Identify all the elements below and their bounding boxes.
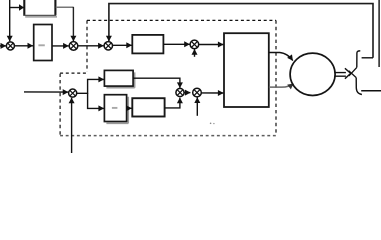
wire W7 upper output curving into ellipse (269, 53, 293, 61)
top feedback line from right side down into S3 (109, 4, 373, 58)
lower branch vertical with elbow tail (356, 78, 362, 95)
wire W2 to S2 (52, 45, 69, 47)
dashed box bottom edge (gray dotted) (60, 135, 276, 137)
summing junction S3 (104, 42, 112, 50)
wire S1 to W2 (15, 45, 34, 47)
wire S3 to W6 (113, 44, 132, 46)
summing junction S5 (69, 89, 77, 97)
block W4 shadow (106, 97, 128, 124)
block W3 shadow (106, 72, 134, 87)
stub input into S4 from below (194, 49, 196, 57)
wire W7 lower output (gray) curving into ellipse (269, 84, 294, 88)
dashed box upper-left edge (86, 20, 88, 71)
wire W4 to W5 (short arrow) (127, 107, 132, 109)
feedback takeoff horizontal to right vertical (362, 57, 373, 59)
dashed box right edge (275, 20, 277, 135)
wire S6 to S7 (184, 92, 190, 94)
speck dots (210, 123, 212, 125)
wire input into S5 from bottom edge (71, 98, 73, 153)
block W2 with minus (34, 25, 52, 61)
block W4 with minus (104, 95, 126, 122)
dashed box top edge (87, 19, 276, 21)
wire S2 to S3 (78, 45, 104, 47)
wire input arrow into S1 from left edge (0, 45, 6, 47)
summing junction S7 (193, 88, 202, 97)
wire branch to block W1 (10, 7, 24, 9)
upper branch vertical with hook (357, 51, 361, 68)
wire branch down to W4 (88, 93, 104, 108)
block W5 (132, 98, 164, 116)
wire W3 to S6 (down into top) (133, 78, 180, 88)
wire feedforward from W1 to S2 (down into S2 top) (56, 6, 74, 8)
summing junction S2 (69, 42, 78, 51)
block W1 bottom shadow (25, 16, 57, 18)
wire input into S5 from left (24, 91, 68, 93)
double-line open output arrow (335, 73, 346, 77)
right edge vertical segment (378, 0, 380, 67)
wire W5 to S6 (up into bottom) (165, 98, 180, 108)
block W7 (large plant block) (224, 33, 269, 107)
wire W6 to S4 (163, 43, 189, 45)
bottom exit line to right edge (361, 90, 381, 92)
summing junction S1 (6, 42, 14, 50)
block W1 (top-left, cropped by top edge) (24, 0, 55, 16)
block W6 (top middle) (132, 35, 163, 54)
stub input into S7 from below (196, 98, 198, 116)
wire S4 to W7 (199, 44, 224, 46)
ellipse E1 (290, 53, 335, 95)
wire S7 to W7 (201, 92, 223, 94)
node branch vertical from top edge down into S1 (9, 0, 11, 41)
dashed box lower-left edge (59, 74, 61, 135)
branch split crossing diagonals (349, 67, 357, 77)
summing junction S4 (190, 40, 199, 49)
wire S5 output with branch to W3 (77, 79, 104, 93)
summing junction S6 (176, 88, 184, 96)
block W3 (104, 70, 133, 86)
dashed box notch horizontal (60, 72, 87, 74)
